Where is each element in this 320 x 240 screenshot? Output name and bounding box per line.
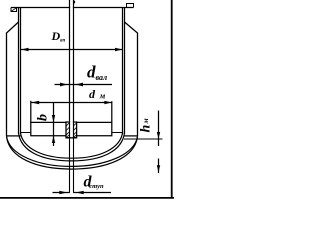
svg-text:ап: ап xyxy=(60,39,66,44)
label b xyxy=(36,114,51,121)
dimension h_m arrow lower xyxy=(157,165,160,172)
dimension D line xyxy=(21,49,123,51)
dimension b top arrow xyxy=(52,115,55,122)
frame bottom border xyxy=(0,197,174,199)
shaft left line xyxy=(69,0,71,138)
vessel wall right inner line xyxy=(122,8,124,134)
dimension D left arrow xyxy=(21,48,28,51)
bottom head inner curve xyxy=(21,133,123,158)
flange left lip diagonal xyxy=(11,8,17,12)
vessel wall left inner line xyxy=(20,8,22,134)
shaft white core xyxy=(70,0,73,138)
dimension h_m arrow upper xyxy=(157,132,160,139)
svg-text:вал: вал xyxy=(96,73,108,82)
vessel top flange line xyxy=(11,7,134,9)
dimension d_stup line left xyxy=(53,192,70,194)
dimension d_val left arrow xyxy=(60,83,68,87)
frame right border xyxy=(171,0,173,198)
dimension d_m extension left xyxy=(30,101,32,123)
flange right lip xyxy=(127,4,134,8)
hub hatching left xyxy=(66,123,69,138)
dimension d_m left arrow xyxy=(31,101,39,105)
shaft right line xyxy=(73,0,75,138)
dimension d_stup left arrow xyxy=(59,191,67,195)
dimension d_stup line right xyxy=(74,192,112,194)
jacket bottom inner curve xyxy=(7,136,138,166)
bottom head outer curve xyxy=(19,133,125,161)
mixer blade rectangle xyxy=(31,122,112,135)
head tangent line left xyxy=(21,132,31,134)
dimension d_m line xyxy=(31,102,112,104)
dimension d_stup right arrow xyxy=(76,191,84,195)
dimension D right arrow xyxy=(115,48,122,51)
vessel wall left outer line xyxy=(18,8,20,134)
dimension b bottom arrow xyxy=(52,136,55,143)
svg-text:м: м xyxy=(141,118,150,124)
svg-text:h: h xyxy=(139,125,154,133)
hub rectangle xyxy=(66,122,77,138)
svg-text:d: d xyxy=(89,87,96,101)
dimension h_m extension line xyxy=(124,138,163,140)
svg-text:D: D xyxy=(51,29,61,43)
dimension d_stup extension left xyxy=(69,138,71,193)
svg-text:b: b xyxy=(36,114,51,121)
flange left lip xyxy=(11,8,17,12)
jacket bottom ring left xyxy=(7,135,21,137)
label h_m rotated xyxy=(139,118,154,132)
hub bottom line xyxy=(66,137,77,139)
hub hatching right xyxy=(73,123,76,138)
dimension d_m extension right xyxy=(111,101,113,122)
jacket bottom ring right xyxy=(125,135,138,137)
jacket left wall and cone top xyxy=(7,22,19,136)
dimension d_m right arrow xyxy=(104,101,111,105)
dimension b line xyxy=(53,103,55,146)
head tangent line right xyxy=(112,132,123,134)
vessel wall right outer line xyxy=(124,8,126,134)
dimension d_stup extension right xyxy=(73,138,75,193)
dimension d_val right arrow xyxy=(76,83,84,87)
dimension h_m line xyxy=(158,111,160,174)
svg-text:ступ: ступ xyxy=(89,183,104,190)
svg-text:м: м xyxy=(99,92,106,101)
jacket right wall and cone top xyxy=(125,22,138,136)
jacket bottom outer curve xyxy=(7,136,138,169)
shaft top notch xyxy=(73,1,75,4)
dimension d_val line xyxy=(55,84,113,86)
